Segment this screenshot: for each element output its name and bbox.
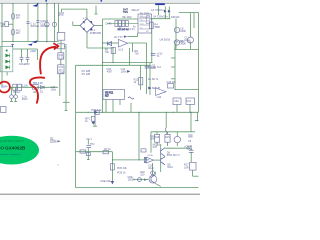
capacitor bank bus: [107, 22, 139, 24]
svg-text:8JR101: 8JR101: [171, 16, 180, 19]
switch box a: [13, 84, 17, 90]
ground arrow MJE: [111, 181, 114, 184]
svg-text:RL1: RL1: [146, 31, 149, 33]
resistor R17 box: [190, 162, 196, 170]
varistor RV1: [5, 22, 9, 27]
op-amp U2 bottom: [146, 157, 153, 163]
svg-text:CE 1: CE 1: [86, 138, 92, 141]
blue voltage labels: [1, 50, 43, 88]
wire: amp feed: [190, 112, 192, 132]
small box on y160: [141, 149, 146, 152]
wire: hang lead 1: [176, 105, 178, 113]
bridge rectifier BR1: [80, 19, 94, 33]
svg-text:K1 04: K1 04: [128, 28, 135, 31]
svg-text:U13: U13: [118, 49, 123, 52]
resistor R14 box: [110, 164, 114, 170]
transistor cluster lines: [133, 172, 161, 187]
svg-text:TP2: TP2: [90, 143, 95, 146]
diode arrow to Q6: [144, 179, 148, 181]
svg-text:100: 100: [140, 174, 145, 177]
inductor Ls symbol: [128, 97, 134, 99]
contact box below transformer: [58, 44, 65, 49]
svg-text:10uF: 10uF: [148, 167, 154, 170]
wire: vertical x151.3: [151, 19, 153, 63]
tiny text labels: [0, 9, 192, 183]
wire: vertical x150: [149, 63, 151, 95]
svg-text:rev 2: rev 2: [50, 141, 54, 144]
wire: vertical x176: [175, 19, 177, 47]
bridge feed wire: [62, 9, 87, 19]
wire: right border bus: [198, 13, 200, 113]
wire: x192.5 drop: [190, 148, 192, 150]
wire: main mid bus y112.3: [76, 111, 199, 113]
svg-text:R15: R15: [165, 136, 170, 139]
wire: right bus y49.4: [174, 48, 199, 50]
svg-text:100n: 100n: [51, 88, 57, 91]
disc cap C8 circle: [174, 27, 179, 32]
Q4 opamp input circles: [144, 157, 146, 159]
capacitor C1 oval: [11, 13, 14, 19]
disc cap R7 circle: [174, 40, 179, 45]
wire: vertical x158.5 top: [158, 5, 160, 15]
svg-text:TPA 4.0V: TPA 4.0V: [33, 82, 44, 85]
contact box K1: [80, 150, 86, 153]
svg-text:MJE 10E: MJE 10E: [101, 180, 111, 183]
svg-text:2KBP06M: 2KBP06M: [90, 32, 101, 35]
svg-text:NTC: NTC: [58, 14, 63, 17]
wire: tmp diode drop: [94, 112, 96, 126]
small box on bus: [95, 110, 99, 114]
fuse circle 2: [14, 95, 18, 99]
generator circle: [45, 22, 49, 26]
red annotation: swoosh arrow: [40, 47, 55, 74]
X-cap box: [33, 85, 39, 90]
wire: vertical x46.9: [46, 3, 48, 41]
wire: main horizontal y87.3: [10, 86, 58, 88]
svg-text:5551 MC H: 5551 MC H: [167, 154, 180, 157]
diode D3 at relay drop: [124, 36, 127, 38]
feed box: [103, 151, 109, 154]
wire: bus y160.8: [112, 159, 149, 161]
diode bridge module box: [0, 46, 13, 72]
svg-text:RE 100n: RE 100n: [122, 16, 132, 19]
svg-text:A.C.: A.C.: [83, 18, 88, 21]
svg-text:180K: 180K: [180, 30, 186, 33]
svg-text:TNN: TNN: [123, 11, 128, 14]
wire: vertical x37.9: [37, 3, 39, 41]
red annotation: hook arrow: [30, 77, 44, 102]
wire: vertical x58.5 to transformer: [58, 3, 60, 32]
wire: y176 stub: [193, 175, 199, 177]
svg-text:1M: 1M: [0, 25, 3, 28]
optocoupler U3 box: [103, 90, 125, 100]
page background: [0, 0, 200, 200]
wire: subcircuit box bottom: [76, 187, 199, 189]
diode on mid bus: [94, 111, 98, 114]
cap TP plates: [86, 145, 91, 147]
svg-text:1.0 A: 1.0 A: [22, 85, 28, 88]
wire: left Q cluster bus: [76, 151, 113, 153]
blue net arrow top left: [32, 3, 38, 7]
wire: bridge left lead: [73, 25, 80, 27]
svg-text:AC TX?: AC TX?: [114, 36, 123, 39]
disc cap C2b circle: [188, 37, 194, 43]
op-amp output corner: [131, 43, 133, 52]
wire: hang lead 2: [189, 105, 191, 113]
wire: fuse drop 2: [15, 87, 17, 94]
svg-text:+C 100n: +C 100n: [139, 17, 149, 20]
resistor R16 box: [155, 134, 160, 142]
wire: vertical x28: [27, 3, 29, 41]
svg-text:2W: 2W: [16, 32, 20, 35]
svg-text:250VAC: 250VAC: [40, 25, 49, 28]
mains connector box: [1, 107, 6, 113]
wire: vertical x146.6: [146, 43, 148, 94]
diodes in module: [5, 50, 9, 70]
red annotation: swoosh arrowhead: [53, 43, 58, 49]
wire: diode box top lead: [13, 48, 38, 50]
svg-text:15030: 15030: [128, 179, 136, 182]
svg-text:C9A 100K: C9A 100K: [174, 41, 186, 44]
cap bars x28: [26, 21, 29, 23]
wire: amp leads: [156, 132, 158, 135]
svg-text:LM 50/18: LM 50/18: [160, 38, 171, 41]
blue net arrow bottom: [32, 40, 38, 43]
wire: vertical x190.5: [190, 13, 192, 38]
svg-text:+4L 4E TL2: +4L 4E TL2: [148, 66, 161, 69]
fuse circle 1: [10, 95, 14, 99]
wire: vertical x112.4: [111, 152, 113, 182]
svg-text:DL SETUP: DL SETUP: [148, 87, 160, 90]
C14 box on transformer column: [58, 65, 64, 74]
svg-text:078: 078: [153, 146, 158, 149]
svg-text:10R: 10R: [184, 166, 189, 169]
wire: x176 to bus: [175, 46, 177, 49]
svg-text:400VAC: 400VAC: [30, 25, 39, 28]
wire: cap drops: [21, 49, 23, 57]
svg-text:F2W: F2W: [58, 71, 64, 74]
svg-text:+5V2: +5V2: [30, 50, 37, 53]
cap bars x37.9: [36, 20, 39, 22]
wire: y48 bus: [87, 47, 113, 49]
cap C6 plates: [188, 134, 192, 136]
blue net bar top right: [155, 3, 165, 5]
svg-text:10R: 10R: [150, 137, 155, 140]
wire: T-bar tick: [63, 101, 70, 103]
watermark green ellipse: [0, 136, 39, 165]
svg-text:RL 2004: RL 2004: [140, 12, 150, 15]
cap C8b plates: [189, 149, 194, 151]
blue dot top: [100, 0, 102, 2]
wire: vertical x139: [138, 112, 140, 160]
switch box b: [18, 84, 22, 90]
op-amp U1: [118, 39, 128, 47]
R13 box on transformer column: [58, 53, 64, 59]
diode chain circles: [151, 171, 155, 175]
wire: squiggle feed: [165, 112, 167, 128]
svg-text:THD: THD: [187, 148, 192, 151]
wire: top of relay section: [103, 18, 139, 20]
svg-text:PC 22B: PC 22B: [82, 73, 91, 76]
diode D10 symbol: [127, 70, 130, 73]
cap C12 plates: [151, 52, 156, 54]
svg-text:C13: C13: [186, 100, 191, 103]
svg-text:bgs animation sistems srl: bgs animation sistems srl: [0, 139, 24, 142]
svg-text:U3 PC1: U3 PC1: [105, 93, 114, 95]
cap C9 plates: [20, 53, 194, 152]
svg-text:5A 725A/2B+: 5A 725A/2B+: [153, 15, 168, 18]
capacitor bank boxes: [115, 21, 118, 27]
wire: terminal tick: [65, 110, 68, 112]
svg-text:220V~: 220V~: [1, 86, 8, 88]
top frame line: [0, 2, 200, 4]
wire: mid bus y62.6: [103, 62, 153, 64]
red annotation: small ellipse: [0, 82, 10, 93]
wire: right section bus y18.5: [150, 18, 170, 20]
inductor squiggle amp: [165, 128, 167, 134]
resistor R15 box: [165, 134, 170, 142]
svg-text:BO GX4002B: BO GX4002B: [0, 145, 26, 150]
wire: opamp output: [128, 42, 146, 44]
wire: bottom bus of input section: [2, 41, 59, 43]
wire: Ls lead: [130, 103, 132, 112]
hang component box 2: [186, 98, 195, 105]
wire: opamp feed: [150, 132, 152, 153]
sense box K2: [86, 153, 90, 156]
bottom title-block line: [0, 193, 200, 195]
gray logo text: [50, 137, 60, 166]
hang component box 1: [173, 98, 181, 105]
wire: amp bus y131.8: [151, 131, 195, 133]
wire: right edge drop: [196, 112, 198, 121]
svg-text:250V: 250V: [22, 98, 28, 101]
wire: rectifier left hook: [72, 22, 74, 26]
svg-text:PCB 1k: PCB 1k: [117, 171, 126, 174]
relay pin text: [140, 15, 150, 32]
svg-text:TMP 4.8c: TMP 4.8c: [91, 109, 102, 112]
blue net arrow mid: [28, 43, 33, 45]
cap C16 plates: [20, 56, 24, 58]
net stub x96: [95, 6, 97, 14]
svg-text:C18 10k: C18 10k: [166, 81, 176, 84]
thermistor circle: [52, 22, 56, 26]
wire: bridge bottom lead: [86, 33, 88, 49]
wire: fuse drop 1: [11, 87, 13, 94]
svg-text:25V: 25V: [25, 63, 30, 66]
wire: vertical x13: [12, 3, 14, 41]
wire: vertical x54.5: [53, 3, 55, 41]
capacitor C2 oval: [11, 29, 14, 35]
svg-text:4007: 4007: [107, 71, 113, 74]
svg-text:C5A: C5A: [174, 100, 179, 103]
resistor MTC box: [92, 116, 95, 121]
resistor R8 box: [111, 48, 115, 54]
wire: transformer output jog: [65, 46, 67, 111]
svg-text:U14b: U14b: [148, 155, 154, 157]
svg-text:C145: C145: [105, 23, 112, 26]
svg-text:R16: R16: [155, 136, 160, 139]
wire: vertical x169.3: [168, 7, 170, 19]
transistor Q4 symbol: [161, 148, 165, 165]
svg-text:PCB 10k: PCB 10k: [117, 167, 128, 170]
diodes right x166/x170: [164, 10, 167, 13]
op-amp U14: [156, 88, 166, 95]
diode on x150: [148, 87, 151, 90]
svg-text:5401: 5401: [167, 166, 173, 169]
svg-text:AP 1k: AP 1k: [104, 148, 111, 151]
resistor R4 box: [149, 22, 153, 28]
svg-text:SW1A: SW1A: [13, 91, 20, 94]
svg-text:CA 7254/0+: CA 7254/0+: [151, 9, 165, 12]
wire: opamp out to border: [175, 89, 199, 91]
diode below MTC: [92, 122, 96, 125]
wire: vertical x140.6: [140, 65, 142, 90]
transformer T1 box: [57, 33, 65, 41]
wire: opamp input: [103, 42, 119, 44]
wire: sense bus x175: [174, 44, 176, 90]
relay RL1 box: [138, 14, 152, 33]
wire: left border: [1, 3, 3, 87]
column wire through R13/C14: [60, 40, 62, 53]
svg-text:U14: U14: [157, 96, 162, 99]
diode D1 on mains: [41, 86, 45, 89]
bottom margin strip: [0, 195, 200, 200]
wire: y155 bus: [165, 147, 189, 149]
wire: long vertical x102.5: [102, 19, 104, 112]
wire: vertical x165.3: [164, 7, 166, 19]
wire: op-amp to base: [154, 159, 161, 161]
wire: RV stubs: [2, 23, 5, 25]
wire: right top bus: [179, 12, 199, 14]
wire: vertical x194: [193, 13, 195, 29]
relay internal pins: [139, 16, 150, 29]
wire: bridge right lead: [94, 25, 103, 27]
wire: subcircuit box top: [76, 64, 150, 66]
transistor Q3 circle: [149, 175, 157, 183]
wire: chain x153: [152, 163, 154, 175]
svg-text:2W: 2W: [16, 16, 20, 19]
svg-text:100n/8: 100n/8: [121, 71, 129, 74]
wire: Q cluster drop: [87, 140, 89, 145]
wire: subcircuit box left: [75, 65, 77, 187]
svg-text:588K: 588K: [155, 26, 161, 29]
svg-text:0.10: 0.10: [59, 56, 64, 59]
top gray band: [0, 0, 200, 3]
svg-text:DL 4E TL: DL 4E TL: [148, 78, 159, 81]
resistor R12 box: [139, 78, 143, 85]
wire: tap ticks: [171, 57, 175, 59]
wire: vertical x113: [112, 47, 114, 63]
diode D2 (left pointing): [107, 42, 111, 46]
transistor Q5 circle: [174, 136, 180, 142]
svg-text:RELAY: RELAY: [132, 9, 140, 12]
wire: x37.5 drop: [37, 49, 39, 60]
wire: transistor column: [160, 144, 162, 150]
svg-text:antonello sat@gmail.it: antonello sat@gmail.it: [0, 153, 21, 156]
wire: opto leads: [105, 100, 107, 113]
wire: vertical x129.5: [129, 48, 131, 65]
svg-text:72A: 72A: [134, 52, 139, 55]
feedback R C18 box: [168, 84, 174, 88]
svg-text:C11: C11: [187, 41, 192, 44]
